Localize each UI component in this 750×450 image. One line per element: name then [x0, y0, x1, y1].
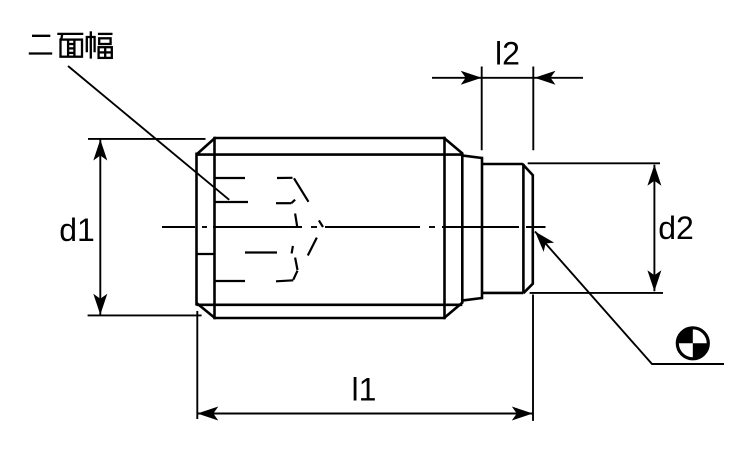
- dimension l1 arrow right: [512, 407, 533, 421]
- body left edge: [195, 153, 198, 306]
- dimension d2 extension top: [528, 162, 660, 164]
- pilot chamfer line: [522, 164, 525, 293]
- svg-text:l1: l1: [352, 372, 377, 408]
- dimension l2 line: [432, 77, 583, 79]
- pilot top edge: [482, 163, 523, 166]
- label d2: [658, 210, 694, 246]
- pilot bottom edge: [481, 292, 523, 295]
- dimension d1 arrow up: [93, 140, 107, 161]
- dimension l1 arrow left: [197, 407, 218, 421]
- label d1: [59, 212, 95, 248]
- pilot bottom-right chamfer: [523, 283, 533, 293]
- pilot end face: [531, 175, 534, 285]
- dimension d2 line: [653, 165, 655, 291]
- label l2: [495, 36, 520, 72]
- dimension d2 extension bottom: [530, 292, 663, 294]
- dimension l2 extension right: [532, 67, 534, 151]
- dimension d2 arrow down: [647, 270, 661, 291]
- svg-text:l2: l2: [495, 36, 520, 72]
- pilot top-right chamfer: [522, 164, 533, 176]
- body top-left chamfer: [197, 138, 216, 155]
- dimension l2 arrow left-pointing: [535, 71, 556, 85]
- hex socket hidden lines: [197, 178, 324, 281]
- hex flat edge top: [197, 153, 463, 156]
- leader line from flats label: [68, 66, 229, 200]
- dimension d2 arrow up: [647, 165, 661, 186]
- body top edge: [215, 137, 445, 140]
- label l1: [352, 372, 377, 408]
- dimension l1 extension right: [532, 295, 534, 421]
- body bottom-left chamfer: [197, 303, 216, 319]
- body right chamfer line: [443, 137, 446, 319]
- centerline: [162, 226, 546, 228]
- corner leader arrow: [535, 232, 554, 252]
- svg-text:d2: d2: [658, 210, 694, 246]
- step face: [481, 157, 484, 299]
- body bottom-right chamfer: [444, 302, 463, 318]
- corner leader line: [535, 232, 724, 365]
- body left chamfer line: [213, 137, 216, 319]
- tangent point symbol: [677, 328, 708, 359]
- dimension l1 line: [197, 413, 533, 415]
- dimension d1 line: [99, 140, 101, 315]
- body right edge: [461, 153, 464, 303]
- dimension d1 arrow down: [93, 294, 107, 315]
- body bottom edge: [215, 317, 445, 320]
- body top-right chamfer: [444, 138, 463, 154]
- label 二面幅 width across flats (drawn strokes): [29, 31, 113, 58]
- dimension d1 extension bottom: [88, 314, 202, 316]
- svg-text:d1: d1: [59, 212, 95, 248]
- dimension l2 arrow right-pointing: [461, 71, 482, 85]
- dimension l1 extension left: [196, 311, 198, 419]
- dimension d1 extension top: [88, 138, 206, 140]
- hex flat edge bottom: [197, 303, 463, 306]
- dimension l2 extension left: [481, 67, 483, 151]
- neck shoulder bottom: [461, 298, 482, 301]
- neck shoulder top: [461, 155, 482, 158]
